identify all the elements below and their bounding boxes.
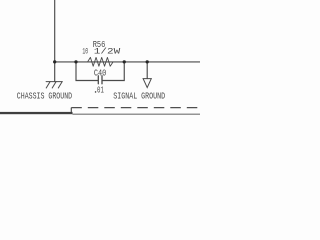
bottom border thick left <box>0 112 73 114</box>
junction dot at top tee <box>53 60 56 63</box>
wire capacitor branch left <box>76 62 98 81</box>
wire vertical from top <box>54 0 56 62</box>
boundary corner drop <box>70 108 72 113</box>
bottom border gray right <box>73 114 201 116</box>
wire horizontal main <box>55 61 200 63</box>
wire capacitor branch right <box>102 62 124 81</box>
svg-text:C40: C40 <box>94 68 107 79</box>
resistor R56 <box>76 57 124 66</box>
svg-text:10: 10 <box>82 48 88 57</box>
svg-text:01: 01 <box>97 86 104 96</box>
wire chassis ground lead <box>54 62 56 82</box>
label .01 <box>95 91 96 93</box>
junction node left of R56 <box>74 60 77 63</box>
signal ground <box>143 79 151 88</box>
svg-text:CHASSIS GROUND: CHASSIS GROUND <box>17 91 72 102</box>
dashed boundary line <box>71 107 200 109</box>
chassis ground <box>46 82 62 88</box>
svg-text:SIGNAL GROUND: SIGNAL GROUND <box>113 91 165 102</box>
capacitor C40 <box>97 76 99 84</box>
junction node signal ground <box>146 60 149 63</box>
wire signal ground lead <box>146 62 148 79</box>
svg-text:1/2W: 1/2W <box>94 48 121 57</box>
junction node right of R56 <box>123 60 126 63</box>
